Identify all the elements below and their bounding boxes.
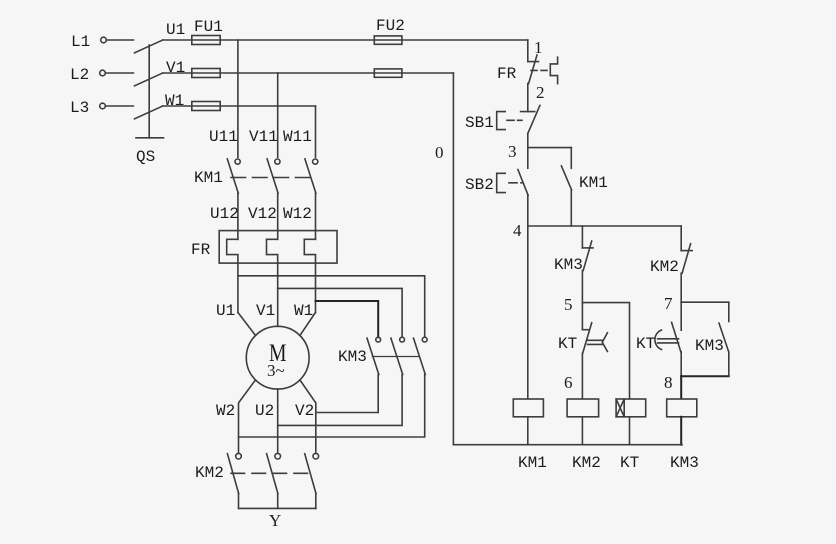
wire node 5 segment — [581, 271, 583, 303]
fuse FU1 element 2 — [192, 69, 220, 78]
wire KM1 coil branch — [527, 226, 529, 399]
wire bottom rail — [453, 444, 682, 446]
terminal L3 — [100, 103, 106, 109]
svg-text:L2: L2 — [70, 66, 89, 84]
SB1 linkage dash — [507, 119, 522, 121]
motor M 3~ — [246, 326, 309, 389]
SB1 button cap — [497, 112, 506, 130]
svg-text:0: 0 — [435, 143, 444, 162]
svg-text:W12: W12 — [283, 205, 312, 223]
svg-text:U11: U11 — [209, 128, 238, 146]
contact KT delayed (NC) — [581, 303, 583, 330]
switch QS bar — [136, 137, 164, 139]
svg-text:1: 1 — [534, 38, 543, 57]
svg-text:6: 6 — [564, 373, 573, 392]
svg-text:W2: W2 — [216, 402, 235, 420]
contactor KM2 star contact 2 — [275, 453, 281, 459]
SB2 linkage dash — [509, 182, 522, 184]
svg-text:KM3: KM3 — [338, 348, 367, 366]
wire node 8 segment — [680, 352, 682, 377]
wire V12 segment — [277, 193, 279, 239]
svg-text:V12: V12 — [248, 205, 277, 223]
svg-text:5: 5 — [564, 295, 573, 314]
svg-text:KT: KT — [636, 335, 655, 353]
wire L3 lead — [106, 105, 134, 107]
svg-text:Y: Y — [269, 511, 281, 530]
svg-text:KM1: KM1 — [579, 174, 608, 192]
switch QS blade 1 — [135, 40, 163, 53]
contact KM3 aux (NO self-hold) — [728, 302, 730, 321]
contactor KM3 power contact 3 — [422, 337, 427, 342]
fuse FU1 element 1 — [192, 36, 220, 45]
contactor KM1 main contact 1 — [235, 159, 240, 164]
svg-text:L1: L1 — [71, 33, 90, 51]
wire node 2 segment — [527, 84, 529, 112]
FR reset bracket — [550, 57, 557, 83]
wire motor lead W1 — [300, 312, 316, 335]
svg-text:QS: QS — [136, 148, 155, 166]
contactor KM3 linkage — [372, 356, 418, 358]
wire star bar Y — [239, 507, 316, 509]
wire star point mid — [277, 494, 279, 509]
wire star point right — [315, 494, 317, 509]
wire V1 to KM3 contact 2 (delta link) — [278, 288, 402, 337]
svg-text:KM1: KM1 — [518, 454, 547, 472]
wire W12 segment — [315, 193, 317, 239]
fuse FU2 element 2 — [374, 69, 402, 77]
wire W1 to KM3 contact 1 (delta link) — [316, 301, 379, 337]
wire KT coil bottom — [629, 417, 631, 445]
contactor KM1 linkage (dashed) — [231, 177, 312, 179]
wire node 4 rail — [528, 225, 681, 227]
svg-text:V11: V11 — [249, 128, 278, 146]
svg-text:SB1: SB1 — [465, 114, 494, 132]
wire KM1 coil bottom — [527, 417, 529, 445]
svg-text:KM2: KM2 — [650, 258, 679, 276]
wire row V1 (L2 phase bus) — [163, 72, 454, 74]
wire U12 segment — [237, 193, 239, 239]
contactor KM1 main contact 3 — [313, 159, 318, 164]
wire node 5 branch to KT coil — [582, 303, 629, 399]
coil KM1 — [513, 399, 543, 417]
SB2 button cap — [497, 173, 506, 192]
wire SB2 to node 4 — [527, 195, 529, 226]
contactor KM3 power contact 1 — [376, 337, 381, 342]
svg-text:2: 2 — [536, 83, 545, 102]
wire KM3 contact 3 to W2 — [239, 375, 425, 438]
svg-text:FR: FR — [191, 241, 211, 259]
FR linkage dash — [531, 69, 548, 71]
svg-text:KM1: KM1 — [194, 169, 223, 187]
contactor KM3 power contact 2 — [400, 337, 405, 342]
KT arc delay symbol — [655, 330, 662, 350]
coil KM2 — [567, 399, 599, 417]
svg-text:FU1: FU1 — [194, 18, 223, 36]
wire L2 lead — [106, 72, 134, 74]
wire V phase drop — [277, 73, 279, 157]
thermal relay FR heater 2 — [267, 239, 278, 326]
svg-text:W1: W1 — [294, 302, 313, 320]
coil KM3 — [667, 399, 697, 417]
contactor KM2 linkage (dashed) — [231, 472, 313, 474]
wire W phase drop — [315, 106, 317, 157]
wire control line node 1 corner — [527, 40, 529, 61]
contact KM3 interlock (NC) — [581, 226, 583, 248]
wire KM3 aux bottom — [728, 352, 730, 376]
svg-text:V2: V2 — [295, 402, 314, 420]
svg-text:KM3: KM3 — [554, 256, 583, 274]
wire KM3 contact 2 to U2 — [278, 375, 402, 426]
svg-text:7: 7 — [664, 294, 673, 313]
wire node 7 branch — [681, 301, 729, 303]
svg-text:KM3: KM3 — [670, 454, 699, 472]
coil KT — [616, 399, 646, 417]
wire motor lead U2 — [277, 389, 279, 453]
wire node 3 segment — [527, 134, 529, 148]
fuse FU1 element 3 — [192, 102, 220, 111]
thermal relay FR box — [219, 231, 337, 264]
svg-text:W11: W11 — [283, 128, 312, 146]
wire U phase drop — [237, 40, 239, 157]
terminal L1 — [101, 37, 107, 43]
wire row W1 (L3 phase bus) — [163, 105, 316, 107]
svg-text:KM3: KM3 — [695, 337, 724, 355]
svg-text:FU2: FU2 — [376, 17, 405, 35]
wire U1 to KM3 contact 3 (delta link) — [238, 276, 425, 337]
svg-text:3~: 3~ — [267, 361, 285, 380]
switch QS blade 3 — [135, 106, 163, 119]
wire star point left — [238, 494, 240, 509]
wire row U1 (L1 phase bus) — [163, 39, 528, 41]
switch QS linkage — [148, 45, 150, 138]
contactor KM2 star contact 1 — [236, 453, 242, 459]
thermal relay FR heater 3 — [304, 239, 315, 312]
svg-text:8: 8 — [664, 373, 673, 392]
svg-text:KM2: KM2 — [195, 464, 224, 482]
contactor KM1 main contact 2 — [275, 159, 280, 164]
svg-text:U2: U2 — [255, 402, 274, 420]
svg-text:W1: W1 — [165, 92, 184, 110]
svg-text:U12: U12 — [210, 205, 239, 223]
terminal L2 — [100, 70, 106, 76]
wire motor lead W2 — [239, 380, 256, 453]
wire motor lead U1 — [238, 312, 256, 335]
svg-text:4: 4 — [513, 221, 522, 240]
svg-text:KT: KT — [558, 335, 577, 353]
svg-text:SB2: SB2 — [465, 176, 494, 194]
wire node 7 segment — [680, 273, 682, 302]
wire KM2 coil bottom — [581, 417, 583, 445]
wire node 3 branch — [528, 147, 572, 149]
contact KM1 aux (NO self-hold) — [570, 148, 572, 169]
wire motor lead V2 — [300, 380, 316, 453]
wire KM3 coil branch — [680, 376, 682, 399]
contactor KM2 star contact 3 — [313, 453, 319, 459]
svg-text:U1: U1 — [216, 302, 235, 320]
wire KM1 aux to node 4 — [570, 190, 572, 226]
svg-text:KT: KT — [620, 454, 639, 472]
svg-text:V1: V1 — [256, 302, 275, 320]
thermal contact FR (NC) — [528, 61, 539, 63]
KT delay fork symbol — [588, 333, 608, 352]
svg-text:3: 3 — [508, 142, 517, 161]
svg-text:KM2: KM2 — [572, 454, 601, 472]
pushbutton SB2 (NO start) — [527, 148, 529, 169]
wire node 8 branch — [681, 375, 729, 377]
pushbutton SB1 (NC stop) — [521, 111, 535, 113]
switch QS blade 2 — [135, 73, 163, 86]
contact KT delayed (NO close) — [680, 302, 682, 330]
fuse FU2 element 1 — [374, 36, 402, 44]
contact KM2 interlock (NC) — [680, 226, 682, 251]
wire L1 lead — [107, 39, 134, 41]
thermal relay FR heater 1 — [227, 239, 238, 312]
svg-text:FR: FR — [497, 65, 517, 83]
wire node 6 segment — [581, 354, 583, 400]
svg-text:V1: V1 — [166, 59, 185, 77]
wire neutral 0 drop — [452, 73, 454, 445]
svg-text:L3: L3 — [70, 99, 89, 117]
KT coil delay mark — [616, 399, 624, 417]
wire KM3 contact 1 to V2 — [316, 375, 378, 413]
wire KM3 coil bottom — [680, 417, 682, 445]
svg-text:U1: U1 — [166, 21, 185, 39]
